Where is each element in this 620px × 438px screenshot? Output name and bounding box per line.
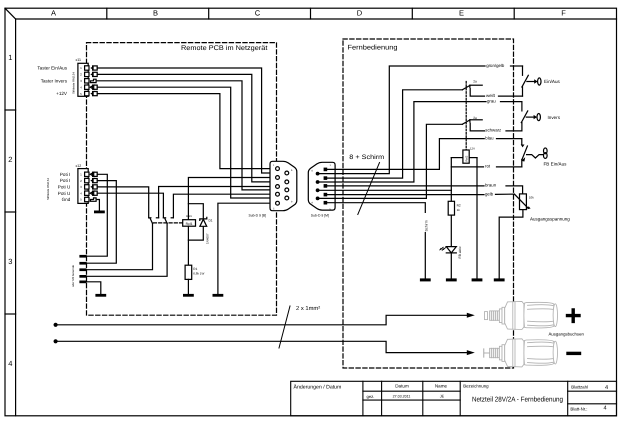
title block texts: [294, 383, 609, 411]
resistor R1: [185, 265, 204, 279]
ground below pin5 wire: [213, 294, 224, 297]
frame row numbers: [8, 53, 12, 368]
svg-text:8 + Schirm: 8 + Schirm: [349, 154, 384, 161]
SubD 9 female shell (left): [249, 161, 297, 217]
svg-text:D: D: [357, 9, 363, 18]
connector X11: [72, 58, 89, 96]
svg-text:Remote PCB im Netzgerät: Remote PCB im Netzgerät: [181, 45, 268, 52]
svg-text:oder M3 Gewinde: oder M3 Gewinde: [71, 264, 75, 287]
frame column letters: [51, 9, 566, 18]
output terminal node plus: [54, 323, 58, 327]
output socket plus (binding post): [485, 301, 558, 329]
wire poti bottom to ground: [499, 210, 523, 279]
svg-text:4: 4: [605, 385, 608, 391]
svg-text:Netzteil 28V/2A - Fernbedienun: Netzteil 28V/2A - Fernbedienung: [472, 396, 563, 404]
svg-text:blau: blau: [485, 135, 494, 140]
relay contact a (Rel1): [149, 218, 159, 224]
svg-text:Ausgangsspannung: Ausgangsspannung: [530, 217, 570, 222]
title block table: [291, 381, 617, 416]
svg-text:Invers: Invers: [548, 115, 561, 120]
svg-text:E: E: [459, 9, 464, 18]
wire pad4 to contact b: [86, 223, 167, 276]
pushbutton Invers: [521, 102, 560, 131]
arrow plus: [467, 313, 475, 318]
svg-text:2a: 2a: [473, 80, 477, 84]
wire coil to resistor R1: [187, 226, 189, 265]
svg-text:1: 1: [8, 53, 12, 62]
svg-text:Blatt-Nr.:: Blatt-Nr.:: [570, 407, 587, 412]
wire SubD pin5 to ground: [218, 203, 276, 294]
svg-text:Taster Ein/Aus: Taster Ein/Aus: [37, 66, 67, 71]
relay contact 2a-2 (schwarz line): [462, 116, 482, 124]
plus symbol: [568, 310, 580, 322]
solder pads column: [79, 255, 86, 283]
X11 pin 1 contact: [85, 66, 98, 70]
wire rot row from coil junction to FB switch: [451, 166, 483, 168]
cable wire w8 riser to contact 2a-2: [318, 124, 463, 198]
wire X12.1 loop to solder pad 1: [86, 174, 107, 256]
resistor R2: [448, 201, 461, 215]
Fernbedienung dashed enclosure: [343, 39, 514, 368]
frame row ticks: [5, 109, 16, 111]
svg-text:braun: braun: [485, 183, 497, 188]
svg-text:gez.: gez.: [367, 394, 375, 399]
svg-text:Poti I: Poti I: [60, 172, 70, 177]
svg-text:F: F: [561, 9, 566, 18]
wire X11.5 to SubD pin1: [97, 94, 275, 169]
SubD left socket pins col B: [285, 171, 289, 200]
diode D1 branch wiring: [188, 204, 203, 219]
mechanical link 2a contacts to Rel2 coil: [465, 82, 467, 151]
svg-text:Name: Name: [435, 384, 448, 389]
svg-text:4: 4: [8, 359, 12, 368]
svg-text:weiß: weiß: [486, 93, 496, 98]
cable wire w5 braun to potentiometer: [506, 186, 523, 194]
svg-text:Sub-D 9 [M]: Sub-D 9 [M]: [311, 214, 329, 218]
ground coil return: [472, 278, 483, 281]
connector X12: [46, 164, 88, 203]
X11 pin 5 contact: [85, 91, 98, 95]
X11 signal labels: [37, 66, 68, 97]
svg-text:Fernbedienung: Fernbedienung: [348, 45, 398, 52]
wire coil right side to ground: [476, 158, 478, 279]
ground below LED: [446, 278, 457, 281]
SubD right pin numbers: [312, 164, 332, 211]
SubD left socket pins col A: [276, 167, 280, 205]
relay contact b (Rel1): [163, 218, 173, 224]
cable wire w4 grau to Invers switch: [501, 101, 522, 103]
SubD left pin numbers: [273, 164, 293, 211]
wire X11.1 to SubD pin6: [97, 68, 285, 173]
wire X12.5 to ground: [97, 200, 99, 211]
svg-text:1N4007: 1N4007: [205, 233, 209, 244]
cable wire w7 gelb to poti wiper: [496, 193, 515, 195]
weiss branch wiring: [470, 89, 484, 97]
relay coil Rel2: [451, 147, 477, 164]
svg-text:C: C: [255, 9, 261, 18]
svg-text:grau: grau: [487, 98, 496, 103]
X12 pin 1 contact: [85, 172, 98, 176]
svg-text:Blattzahl: Blattzahl: [571, 384, 588, 389]
output wire plus: [56, 315, 467, 325]
LED FB aktiv: [440, 246, 462, 259]
X12 pin 2 contact: [85, 178, 98, 182]
wire pad3 to contact a: [86, 223, 152, 270]
svg-text:Stiftleiste RM2,54: Stiftleiste RM2,54: [46, 178, 50, 200]
mechanical link contacts to Rel1 coil: [154, 222, 183, 224]
wire X12.2 loop to solder pad 2: [86, 181, 116, 264]
potentiometer Ausgangsspannung: [514, 194, 570, 222]
svg-text:Stiftleiste RM2,54: Stiftleiste RM2,54: [72, 72, 76, 94]
cable wire w4 (grau): [318, 102, 486, 182]
wire X11.3 to SubD pin8: [97, 81, 285, 190]
wire R1 to ground: [187, 279, 189, 294]
svg-text:x12: x12: [76, 164, 82, 168]
svg-text:R1: R1: [193, 267, 197, 271]
shield label Schirm: [423, 213, 429, 232]
wire SubD pin2 to relay coil: [188, 178, 275, 220]
cable wire w3 (weiss) riser to contact 2a-1: [325, 90, 462, 178]
svg-text:Schirm: Schirm: [424, 220, 428, 231]
svg-text:FB aktiv: FB aktiv: [458, 246, 462, 259]
cable wire w1 (blau): [325, 139, 484, 170]
svg-text:Ausgangsbuchsen: Ausgangsbuchsen: [549, 331, 585, 336]
output socket minus (binding post): [484, 339, 558, 367]
svg-text:2a: 2a: [473, 116, 477, 120]
svg-text:Bezeichnung: Bezeichnung: [463, 383, 489, 388]
X11 pin 2 contact: [85, 72, 98, 76]
relay contact 2a-1 (weiss line): [462, 80, 482, 90]
cable wire w6 (remote coil line): [318, 189, 452, 191]
pushbutton Ein/Aus: [522, 66, 561, 96]
ground below R1: [183, 294, 194, 297]
minus symbol: [568, 352, 580, 355]
cable wire w5 (braun): [325, 185, 484, 187]
svg-text:Sub-D 9 [B]: Sub-D 9 [B]: [249, 214, 267, 218]
frame column ticks: [106, 8, 108, 19]
svg-text:2 x 1mm²: 2 x 1mm²: [296, 305, 320, 312]
svg-text:FB Ein/Aus: FB Ein/Aus: [544, 161, 568, 166]
cable wire w1 blau to FB switch: [497, 138, 522, 140]
wire size note 2 x 1mm2: [279, 305, 320, 348]
svg-text:Gnd: Gnd: [62, 197, 71, 202]
svg-text:Rel2: Rel2: [464, 155, 468, 161]
svg-text:2: 2: [8, 155, 12, 164]
arrow minus: [467, 350, 475, 355]
wire X12.4 to relay contact b: [97, 193, 163, 218]
ground shield: [420, 278, 431, 281]
svg-text:1k: 1k: [457, 208, 461, 212]
svg-text:grün/gelb: grün/gelb: [486, 63, 505, 68]
relay contact a output riser to SubD pin3: [159, 187, 276, 218]
svg-text:Ein/Aus: Ein/Aus: [544, 79, 561, 84]
ground poti return: [494, 278, 505, 281]
X11 pin 4 contact: [85, 85, 98, 89]
ground below pad5: [95, 294, 106, 297]
cable wire w2 (gruen/gelb): [318, 66, 485, 174]
svg-text:D1: D1: [209, 218, 213, 222]
schwarz branch wiring: [470, 123, 484, 131]
wire X11.4 to SubD pin9: [97, 87, 285, 198]
cable note 8 + Schirm: [349, 154, 384, 215]
wire R2 to LED: [450, 215, 452, 247]
SubD right pins col A (solid): [324, 168, 328, 205]
ground below X12: [94, 211, 105, 214]
Remote PCB im Netzgeraet dashed enclosure: [87, 43, 277, 316]
wire pad5 to ground: [86, 282, 100, 294]
svg-text:27.03.2011: 27.03.2011: [393, 395, 411, 399]
SubD 9 male shell (right): [308, 162, 335, 217]
wire X11.2 to SubD pin7: [97, 74, 285, 181]
svg-text:rot: rot: [485, 164, 491, 169]
X12 pin 5 contact: [85, 197, 97, 201]
svg-text:Rel1: Rel1: [186, 222, 193, 226]
relay contact b output riser to SubD pin4: [173, 194, 275, 218]
X11 pin 3 contact: [85, 79, 97, 83]
svg-text:Poti I: Poti I: [60, 178, 70, 183]
cable wire w9 shield to ground: [325, 203, 425, 279]
svg-text:gelb: gelb: [485, 191, 494, 196]
wire LED to ground: [450, 253, 452, 279]
svg-text:Taster Invers: Taster Invers: [41, 78, 68, 83]
svg-text:x11: x11: [76, 58, 82, 62]
svg-text:JE: JE: [440, 395, 445, 399]
svg-text:4: 4: [604, 406, 607, 412]
svg-text:Änderungen / Datum: Änderungen / Datum: [294, 383, 342, 390]
svg-text:+12V: +12V: [56, 91, 68, 96]
svg-text:Datum: Datum: [395, 384, 409, 389]
svg-text:schwarz: schwarz: [485, 128, 501, 133]
latching switch FB Ein/Aus: [521, 139, 567, 167]
wire coil junction down to R2: [450, 158, 452, 202]
output terminal node minus: [54, 339, 58, 343]
svg-text:6,8k 1W: 6,8k 1W: [193, 272, 204, 276]
X12 pin 3 contact: [85, 185, 98, 189]
svg-text:Poti U: Poti U: [58, 191, 71, 196]
svg-text:10k: 10k: [529, 195, 534, 199]
svg-text:3: 3: [8, 257, 12, 266]
svg-text:Rel1: Rel1: [186, 214, 192, 218]
diode D1 (zener): [200, 217, 213, 244]
svg-text:Poti U: Poti U: [58, 185, 71, 190]
svg-text:R2: R2: [457, 203, 461, 207]
svg-text:B: B: [153, 9, 158, 18]
wire X12.3 to relay contact a: [97, 187, 149, 218]
X12 signal labels: [58, 172, 71, 202]
cable wire w2 gruen/gelb to Ein/Aus switch: [511, 65, 523, 67]
SubD right pins col B (solid): [316, 172, 320, 201]
relay coil Rel1: [183, 214, 196, 226]
X12 pin 4 contact: [85, 191, 98, 195]
svg-text:A: A: [51, 9, 56, 18]
cable wire w7 (gelb): [325, 194, 484, 196]
output wire minus: [56, 341, 467, 352]
svg-text:12V: 12V: [470, 147, 475, 151]
